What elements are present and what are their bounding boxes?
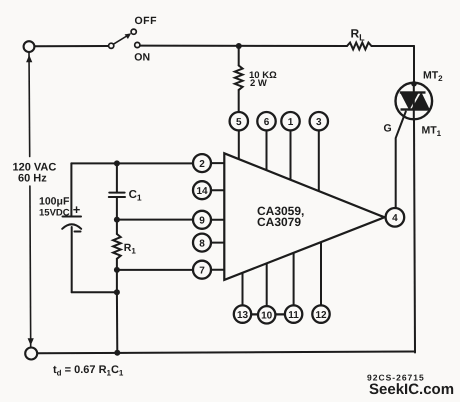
svg-text:7: 7 (199, 266, 205, 277)
svg-text:12: 12 (315, 310, 327, 321)
svg-text:15VDC: 15VDC (39, 208, 70, 219)
svg-text:5: 5 (236, 117, 242, 128)
svg-text:11: 11 (288, 310, 299, 321)
svg-text:+: + (73, 202, 81, 217)
svg-text:60 Hz: 60 Hz (18, 173, 47, 185)
svg-text:13: 13 (237, 310, 249, 321)
svg-text:8: 8 (199, 238, 205, 249)
svg-text:3: 3 (316, 117, 322, 128)
svg-text:CA3079: CA3079 (257, 215, 301, 229)
svg-text:14: 14 (196, 186, 208, 197)
svg-text:2 W: 2 W (250, 78, 267, 89)
svg-text:td = 0.67 R1C1: td = 0.67 R1C1 (53, 364, 124, 378)
svg-text:SeekIC.com: SeekIC.com (369, 381, 454, 398)
svg-text:ON: ON (134, 52, 150, 64)
svg-text:100μF: 100μF (39, 196, 70, 208)
svg-text:2: 2 (199, 159, 205, 170)
svg-text:1: 1 (288, 117, 294, 128)
svg-text:G: G (384, 123, 392, 135)
svg-text:6: 6 (264, 117, 270, 128)
svg-text:OFF: OFF (135, 15, 158, 27)
svg-text:9: 9 (199, 216, 205, 227)
svg-text:10: 10 (261, 311, 273, 322)
svg-text:4: 4 (392, 213, 398, 224)
